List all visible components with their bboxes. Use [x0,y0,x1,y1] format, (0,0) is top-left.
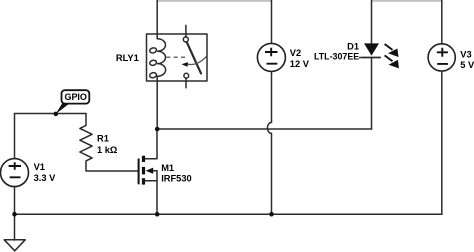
svg-text:D1: D1 [347,42,359,52]
svg-text:V3: V3 [460,49,471,59]
svg-text:R1: R1 [97,133,109,143]
svg-text:3.3 V: 3.3 V [34,173,57,183]
svg-text:V1: V1 [34,162,45,172]
svg-text:LTL-307EE: LTL-307EE [314,52,359,62]
svg-text:5 V: 5 V [460,60,474,70]
svg-text:V2: V2 [290,48,301,58]
svg-text:RLY1: RLY1 [116,53,139,63]
svg-text:1 kΩ: 1 kΩ [97,145,118,155]
svg-text:GPIO: GPIO [65,92,87,102]
svg-text:M1: M1 [161,163,174,173]
svg-text:IRF530: IRF530 [161,173,192,183]
svg-text:12 V: 12 V [290,59,310,69]
